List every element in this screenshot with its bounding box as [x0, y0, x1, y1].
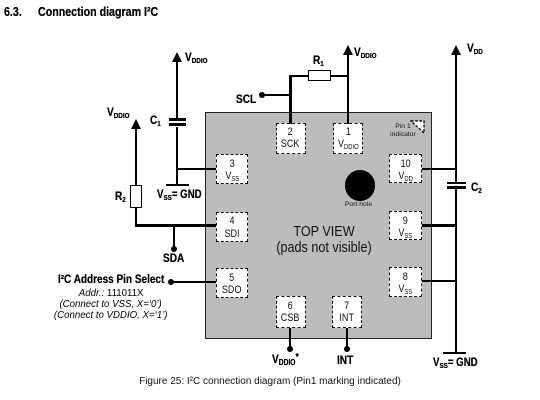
power VDD arrow — [451, 45, 461, 55]
label (Connect to VSS, X='0') — [24, 298, 198, 310]
label SDA — [163, 251, 184, 265]
power VDDIO arrow (C1 branch) — [172, 52, 182, 62]
wire R2 lower vertical — [135, 208, 137, 226]
label VDDIO* — [272, 352, 299, 367]
pin 9 box VSS — [389, 211, 422, 240]
label SCL — [236, 92, 256, 106]
label VSS= GND (left) — [157, 189, 202, 202]
label C2 — [471, 180, 482, 195]
ground bar (left VSS=GND) — [166, 184, 189, 187]
node SDA terminal dot — [171, 246, 177, 252]
wire C1 lower vertical — [176, 127, 178, 185]
label (Connect to VDDIO, X='1') — [24, 309, 198, 321]
pin 10 box VDD — [389, 154, 422, 183]
wire pin9 horizontal — [422, 224, 456, 226]
wire R1 right lead — [331, 75, 349, 77]
label VDD — [467, 41, 483, 56]
wire SDA stub vertical — [173, 224, 175, 247]
capacitor C1 top plate — [169, 118, 186, 121]
label VSS= GND (right) — [433, 357, 478, 370]
ground bar (right VSS=GND) — [443, 352, 466, 355]
resistor R1 — [308, 70, 331, 81]
node address select dot — [168, 279, 174, 285]
pin 4 box SDI — [216, 212, 248, 242]
label INT (bottom) — [337, 353, 353, 367]
label VDDIO (R2 branch) — [107, 105, 129, 120]
label TOP VIEW — [254, 224, 393, 240]
node SCL terminal dot — [259, 92, 265, 98]
node INT terminal dot — [344, 346, 350, 352]
wire pin3 horizontal — [176, 168, 216, 170]
label I2C Address Pin Select — [24, 274, 198, 286]
wire C1 upper vertical — [176, 60, 178, 118]
wire R2 upper vertical — [135, 127, 137, 186]
figure caption — [0, 376, 540, 387]
section title — [4, 4, 22, 19]
sensor package body (TOP VIEW) — [205, 112, 432, 339]
wire pin4 horizontal (SDA line) — [135, 224, 216, 226]
wire pin5 horizontal — [171, 281, 216, 283]
label Port hole — [329, 201, 389, 208]
pin 1 indicator label — [380, 123, 426, 140]
capacitor C2 bottom plate — [447, 186, 466, 188]
wire pin1 vertical — [347, 53, 349, 124]
power VDDIO arrow (pin1) — [343, 45, 353, 55]
label (pads not visible) — [254, 240, 393, 256]
node CSB terminal dot — [287, 346, 293, 352]
pin 7 box INT — [332, 296, 362, 328]
pin 1 indicator corner mark — [410, 120, 426, 135]
wire VDD vertical upper — [455, 53, 457, 182]
resistor R2 — [130, 185, 142, 208]
wire pin8 horizontal — [422, 280, 456, 282]
wire pin7 vertical (INT) — [346, 328, 348, 347]
wire pin6 vertical (CSB) — [289, 328, 291, 347]
wire pin2 vertical (SCL to SCK) — [289, 75, 291, 124]
pin 2 box SCK — [276, 123, 306, 155]
pin 5 box SDO — [216, 268, 248, 298]
label R1 — [313, 53, 324, 68]
pin 6 box CSB — [276, 296, 306, 328]
label C1 — [150, 113, 161, 128]
capacitor C2 top plate — [447, 182, 466, 184]
wire R1 left lead — [290, 75, 308, 77]
pin 3 box VSS — [216, 154, 248, 183]
label VDDIO (C1 branch) — [185, 50, 207, 65]
wire SCL horizontal — [261, 94, 291, 96]
pin 1 box VDDIO — [333, 123, 363, 155]
wire VDD vertical lower — [455, 189, 457, 353]
power VDDIO arrow (R2 branch) — [131, 119, 141, 129]
port hole — [345, 170, 376, 201]
label R2 — [115, 189, 126, 204]
label Addr.: 111011X — [24, 287, 198, 299]
label VDDIO (pin1) — [354, 45, 376, 60]
wire pin10 horizontal — [422, 168, 456, 170]
capacitor C1 bottom plate — [169, 123, 186, 126]
pin 8 box VSS — [389, 267, 422, 297]
